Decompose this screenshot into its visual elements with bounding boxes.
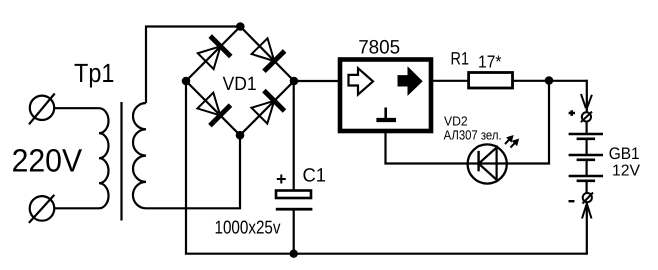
transformer Tp1 core	[120, 102, 122, 221]
U1 input arrow (hollow)	[349, 68, 374, 94]
battery GB1 cell 1 short plate	[577, 138, 596, 141]
battery GB1 cell 2 short plate	[577, 159, 596, 162]
LED VD2 cathode bar	[477, 151, 479, 171]
wire between cells 1-2	[585, 139, 587, 155]
wire: regulator common pin down	[384, 131, 386, 164]
svg-text:VD1: VD1	[223, 74, 257, 95]
battery clip top (+ terminal)	[581, 94, 592, 122]
bridge VD1 edge bottom-left	[186, 81, 240, 135]
diode VD1.2 (top-right)	[249, 36, 286, 73]
U1 output arrow (solid)	[398, 68, 422, 95]
wire: secondary bottom lead to bridge bottom node	[146, 135, 240, 208]
LED VD2 light arrow 2	[508, 136, 522, 150]
wire: clip to battery	[585, 122, 587, 135]
svg-text:VD2: VD2	[444, 114, 468, 129]
U1 common pin symbol	[384, 108, 387, 119]
svg-text:17*: 17*	[478, 52, 502, 72]
svg-text:R1: R1	[451, 48, 470, 68]
svg-text:12V: 12V	[612, 163, 640, 180]
wire: right node down to C1	[293, 81, 295, 191]
wire: secondary top lead up and to bridge top node	[146, 27, 240, 104]
transformer Tp1 secondary winding	[133, 103, 146, 208]
svg-text:C1: C1	[303, 166, 327, 187]
wire: C1 bottom to ground rail	[293, 209, 295, 254]
LED VD2 circle	[468, 144, 507, 183]
capacitor C1 plus plate	[276, 191, 311, 199]
wire: bridge left node down to ground rail	[185, 81, 187, 254]
label - for battery bottom clip	[569, 200, 575, 202]
wire: R1 to junction and to battery corner	[513, 80, 587, 82]
LED VD2 triangle	[479, 148, 497, 180]
node: C1 to ground rail	[290, 250, 298, 258]
wire: LED branch horizontal	[384, 162, 550, 164]
wire: bottom clip to ground rail	[586, 202, 588, 254]
battery GB1 cell 3 short plate	[577, 180, 596, 183]
regulator U1 7805 box	[340, 60, 431, 132]
terminal X2 bottom (220V input)	[29, 195, 54, 223]
wire: bottom ground rail	[185, 253, 588, 255]
node: bridge top (AC)	[236, 22, 245, 31]
bridge VD1 edge top-right	[240, 27, 294, 82]
battery GB1 cell 2 long plate	[569, 154, 603, 156]
svg-text:GB1: GB1	[609, 144, 640, 163]
resistor R1 body	[469, 73, 513, 89]
wire: bridge right node to regulator input	[294, 80, 339, 82]
battery GB1 cell 1 long plate	[569, 133, 603, 135]
battery GB1 cell 3 long plate	[569, 175, 603, 177]
wire: corner down to battery top clip	[586, 80, 588, 113]
bridge VD1 edge bottom-right	[240, 81, 294, 135]
node: bridge right (plus)	[290, 77, 299, 86]
wire: LED branch up to junction	[548, 81, 550, 163]
node: bridge bottom (AC)	[236, 131, 245, 140]
wire: regulator output to R1	[433, 80, 469, 82]
svg-text:7805: 7805	[358, 37, 400, 59]
bridge VD1 edge top-left	[186, 27, 240, 82]
wire: top terminal to primary	[54, 107, 99, 109]
wire: bottom terminal to primary	[54, 207, 99, 209]
battery clip bottom (- terminal)	[582, 193, 593, 219]
wire: battery to bottom clip	[585, 181, 587, 193]
node: bridge left (minus)	[182, 77, 191, 86]
diode VD1.1 (top-left)	[195, 34, 232, 71]
wire between cells 2-3	[585, 160, 587, 176]
node: junction after R1	[545, 76, 554, 85]
diode VD1.3 (bottom-left)	[195, 90, 232, 127]
svg-text:АЛ307 зел.: АЛ307 зел.	[444, 128, 502, 143]
transformer Tp1 primary winding	[99, 108, 109, 208]
capacitor C1 minus plate	[276, 208, 313, 211]
svg-text:1000x25v: 1000x25v	[215, 216, 282, 237]
terminal X1 top (220V input)	[29, 94, 55, 125]
svg-text:220V: 220V	[12, 142, 83, 178]
diode VD1.4 (bottom-right)	[249, 89, 286, 126]
capacitor C1 plus sign	[277, 175, 286, 184]
svg-text:Tp1: Tp1	[74, 58, 114, 88]
LED VD2 light arrow 1	[502, 132, 516, 146]
label + for battery top clip	[569, 110, 575, 116]
